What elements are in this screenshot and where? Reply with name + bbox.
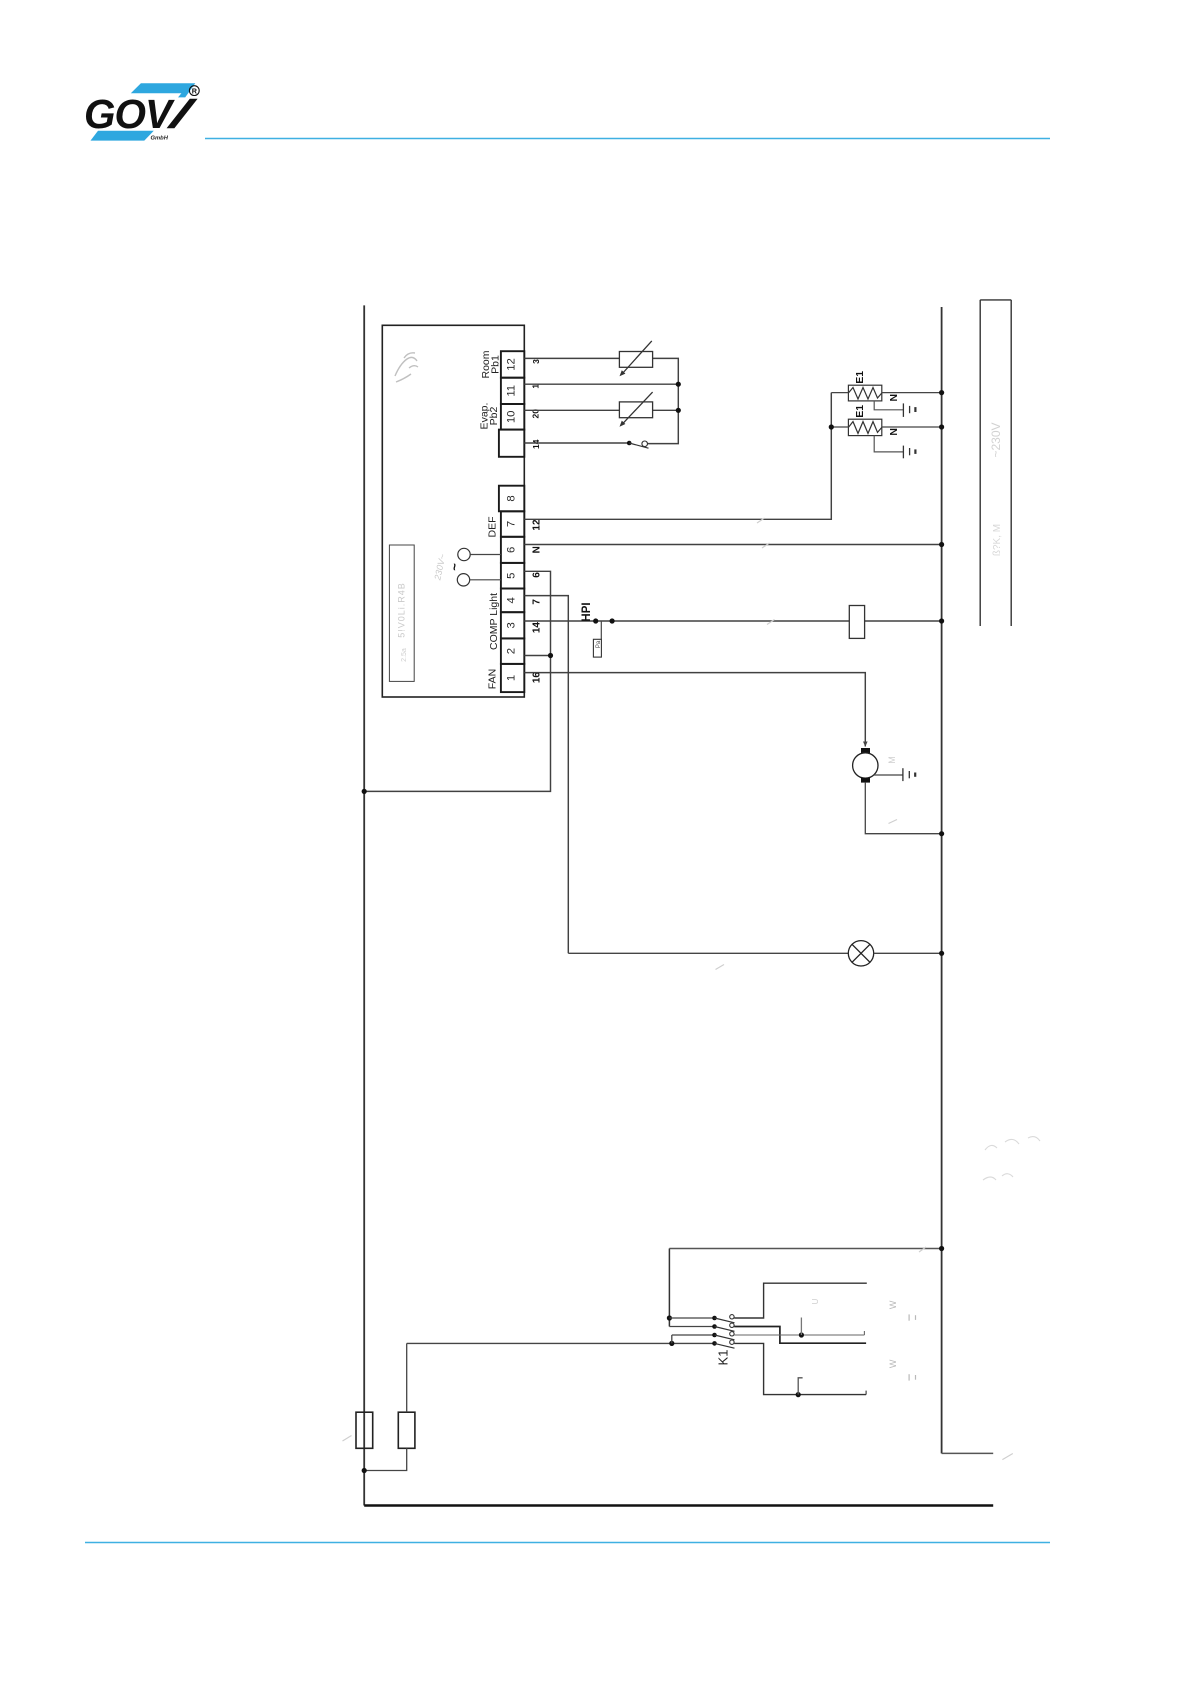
node bus dot E1b	[939, 424, 944, 429]
svg-text:FAN: FAN	[487, 669, 499, 689]
node sensors dot a	[676, 382, 681, 387]
wire F2 bottom return	[364, 1448, 407, 1470]
faint scribble controller top	[395, 353, 418, 382]
node row3 tap	[799, 1332, 804, 1337]
wire blank pin to switch	[524, 442, 629, 444]
wire E1 lower left	[831, 426, 848, 428]
wire K1 top feed	[669, 1248, 941, 1250]
thermistor Pb1 arrowhead	[620, 370, 626, 376]
svg-text:8: 8	[506, 495, 518, 501]
svg-text:ß?K, M: ß?K, M	[992, 524, 1003, 556]
wire motor to bus	[865, 783, 941, 834]
terminal 8	[499, 486, 524, 512]
wire row4 tap stub	[798, 1378, 802, 1395]
contactor K1 contact row2	[669, 1323, 866, 1343]
ground compressor lower faint	[909, 1374, 915, 1380]
wire pin3 COMP to coil	[524, 620, 849, 622]
wire pin12 to Pb1	[524, 357, 619, 359]
terminal 3	[501, 612, 524, 638]
terminal blank	[499, 430, 524, 457]
terminal strip cells	[499, 351, 524, 692]
svg-text:HPI: HPI	[581, 602, 593, 621]
svg-text:U: U	[811, 1298, 820, 1304]
svg-text:10: 10	[506, 411, 518, 424]
wire E1 upper ground stem	[874, 401, 903, 410]
lamp H1	[848, 941, 873, 966]
thermistor Pb1	[619, 341, 652, 375]
relay coil K1	[849, 606, 864, 639]
footer rule cyan	[85, 1542, 1050, 1544]
terminal 5	[501, 563, 524, 589]
svg-text:M: M	[887, 756, 897, 764]
fan motor M1 top block	[861, 748, 870, 753]
wire E1 upper left	[831, 392, 848, 394]
node bus dot lamp	[939, 951, 944, 956]
wire pin7 DEF to heaters	[524, 393, 831, 520]
svg-text:3: 3	[531, 359, 541, 364]
node HPI dot b	[610, 618, 615, 623]
wire pin4 down to lamp	[524, 596, 568, 954]
svg-text:W: W	[888, 1300, 898, 1309]
thermistor Pb2 arrowhead	[620, 421, 626, 427]
fuse F1	[356, 1412, 373, 1448]
svg-text:7: 7	[506, 521, 518, 527]
wire pin6 N to bus	[524, 544, 941, 546]
defrost heater E1 lower	[848, 419, 881, 435]
wire right bus N	[941, 307, 943, 1453]
wire pressure tap	[600, 621, 602, 639]
pressure switch P box	[593, 639, 601, 657]
fan motor M1 body	[853, 753, 878, 778]
svg-text:N: N	[531, 546, 542, 553]
terminal 1	[501, 664, 524, 692]
contactor K1 contact row1	[669, 1283, 866, 1323]
wire sensors vertical	[648, 358, 679, 443]
fan motor M1 arrow	[863, 742, 868, 747]
svg-text:Pb2: Pb2	[488, 407, 500, 426]
wire bottom supply	[364, 1504, 993, 1506]
wire coil to bus	[865, 620, 942, 622]
terminal 6	[501, 537, 524, 563]
svg-text:7: 7	[531, 599, 542, 605]
ground motor	[903, 768, 915, 781]
wire lamp to bus	[874, 952, 942, 954]
supply lamp L1	[458, 548, 470, 560]
svg-text:N: N	[888, 428, 900, 436]
logo GOVI blue top bar	[131, 83, 196, 97]
node bus dot K1 feed	[939, 1246, 944, 1251]
fan motor M1 bottom block	[861, 778, 870, 783]
fuse F2	[398, 1412, 415, 1448]
header rule cyan	[205, 138, 1050, 140]
svg-text:11: 11	[506, 385, 518, 397]
wire Pb2 right lead	[653, 409, 679, 411]
node 230V supply label box	[980, 300, 1011, 626]
svg-text:Pa: Pa	[596, 640, 602, 648]
wire E1 lower right to bus	[882, 426, 942, 428]
defrost heater E1 upper	[848, 385, 881, 401]
svg-text:Pb1: Pb1	[490, 355, 502, 374]
supply lamp L2	[457, 574, 469, 586]
contactor K1 contact row4	[407, 1340, 866, 1395]
door switch contact dot	[627, 441, 632, 446]
svg-text:W: W	[888, 1359, 898, 1368]
wire pin2 to node	[524, 655, 550, 657]
wire E1 upper right to bus	[882, 392, 942, 394]
door switch lever	[629, 443, 648, 448]
svg-text:R: R	[192, 87, 198, 96]
svg-text:1: 1	[506, 675, 518, 681]
wire lamp feed	[568, 952, 848, 954]
svg-text:E1: E1	[854, 405, 866, 418]
logo GOVI blue bottom bar	[91, 131, 154, 141]
wire L1 to pin6	[470, 554, 501, 556]
svg-text:16: 16	[531, 672, 542, 684]
ground E1 lower	[903, 446, 915, 459]
svg-text:6: 6	[506, 547, 518, 553]
controller label plate	[389, 545, 414, 681]
terminal 2	[501, 638, 524, 664]
faint pencil marks	[343, 518, 1013, 1460]
svg-text:COMP Light: COMP Light	[488, 593, 500, 650]
node pin2 junction	[548, 653, 553, 658]
svg-text:6: 6	[531, 572, 542, 578]
ground E1 upper	[903, 403, 915, 417]
controller U1 box	[382, 325, 524, 697]
wire number labels	[531, 359, 543, 683]
node bus dot motor	[939, 831, 944, 836]
svg-text:2.5a: 2.5a	[401, 648, 408, 662]
svg-text:2: 2	[506, 648, 518, 654]
door switch fixed circle	[642, 441, 648, 447]
svg-text:~: ~	[447, 563, 462, 571]
node HPI dot a	[593, 618, 598, 623]
terminal 11	[501, 378, 524, 404]
svg-text:N: N	[888, 394, 900, 402]
node K1 row1 junction	[667, 1315, 672, 1320]
svg-text:GmbH: GmbH	[151, 135, 169, 141]
svg-text:12: 12	[532, 519, 543, 531]
svg-text:DEF: DEF	[487, 517, 499, 538]
terminal group labels	[479, 350, 502, 689]
svg-text:~230V: ~230V	[989, 422, 1003, 457]
svg-text:14: 14	[531, 439, 541, 449]
wire right bus bottom corner	[942, 1452, 994, 1454]
svg-text:4: 4	[506, 597, 518, 603]
node fuse return dot	[362, 1468, 367, 1473]
thermistor Pb2	[619, 392, 652, 425]
wire K1 feed vertical	[668, 1249, 670, 1327]
wire F2 branch	[406, 1343, 408, 1412]
wire E1 lower ground stem	[874, 436, 903, 452]
node bus dot E1a	[939, 390, 944, 395]
wire row3 feed stub	[671, 1335, 673, 1343]
node sensors dot b	[676, 408, 681, 413]
terminal numbers	[506, 358, 518, 681]
wire left bus L	[363, 305, 365, 1505]
svg-text:GOV: GOV	[84, 91, 175, 137]
svg-text:5: 5	[506, 573, 518, 579]
node left bus junction	[362, 789, 367, 794]
logo I slash	[167, 99, 198, 128]
svg-text:14: 14	[531, 622, 542, 634]
wire motor ground lead	[874, 774, 903, 776]
svg-text:5!V0Li.R4B: 5!V0Li.R4B	[397, 582, 407, 638]
wire pin11 to node A	[524, 383, 678, 385]
node heater branch dot	[829, 424, 834, 429]
contactor K1 contact row3	[672, 1331, 865, 1340]
node bus dot coil	[939, 618, 944, 623]
wire pin1 FAN to motor	[524, 673, 865, 747]
svg-text:K1: K1	[715, 1350, 730, 1366]
wire pin10 to Pb2	[524, 409, 619, 411]
ground compressor upper faint	[909, 1314, 915, 1320]
wire L2 to pin5	[470, 579, 501, 581]
node bus dot N	[939, 542, 944, 547]
wire row3 tap stub	[800, 1318, 802, 1336]
faint scribble page right	[983, 1137, 1040, 1180]
terminal 4	[501, 589, 524, 613]
terminal 7	[501, 511, 524, 537]
logo registered mark	[189, 86, 199, 96]
terminal 12	[501, 351, 524, 378]
wire pin5 down	[524, 571, 550, 655]
node feed dot left	[669, 1341, 674, 1346]
wire node down left to bus	[364, 656, 550, 792]
svg-text:12: 12	[506, 358, 518, 371]
node row4 tap	[796, 1392, 801, 1397]
terminal 10	[501, 404, 524, 430]
svg-text:3: 3	[506, 622, 518, 628]
svg-text:E1: E1	[854, 371, 866, 384]
